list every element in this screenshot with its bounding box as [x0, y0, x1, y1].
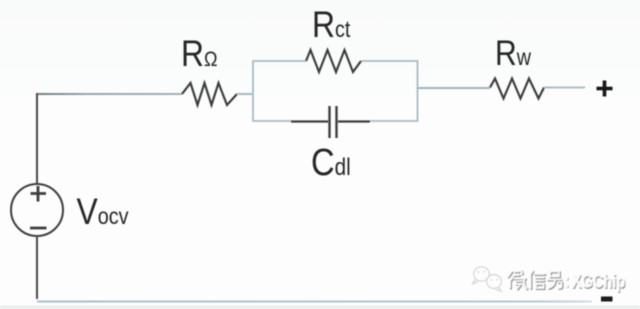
terminal + (positive) [597, 81, 613, 97]
wire bottom horizontal (negative rail) [37, 301, 592, 303]
resistor Rct [306, 50, 361, 72]
label Vocv [77, 192, 129, 233]
label Cdl [311, 141, 351, 184]
capacitor Cdl [291, 106, 370, 138]
watermark wechat logo [473, 267, 502, 292]
svg-text:XGChip: XGChip [572, 269, 626, 292]
svg-text::: : [563, 270, 570, 292]
wire from R_ohm to parallel block [237, 93, 253, 95]
wire top horizontal from node A to R_ohm [37, 93, 182, 95]
label Rw [495, 33, 531, 73]
terminal - (negative) [601, 297, 613, 302]
wire left vertical upper [36, 93, 38, 184]
wire from Rw to positive terminal [544, 87, 585, 89]
label Rct [312, 5, 350, 46]
wire left vertical lower [36, 236, 38, 299]
label R_ohm [181, 34, 217, 75]
resistor Rw [490, 79, 544, 99]
voltage source Vocv [11, 184, 63, 236]
wire from parallel block to Rw [418, 87, 491, 89]
wire RC parallel loop frame [253, 61, 418, 121]
resistor R_ohm [182, 83, 237, 105]
